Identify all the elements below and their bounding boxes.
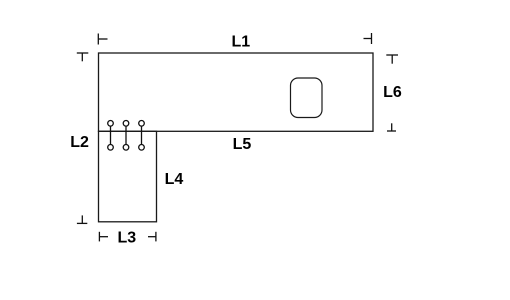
svg-text:L3: L3 bbox=[117, 230, 136, 247]
svg-text:L1: L1 bbox=[231, 34, 250, 51]
svg-text:L4: L4 bbox=[165, 171, 184, 188]
svg-text:L5: L5 bbox=[233, 136, 252, 153]
svg-text:L6: L6 bbox=[383, 84, 402, 101]
svg-text:L2: L2 bbox=[70, 134, 89, 151]
